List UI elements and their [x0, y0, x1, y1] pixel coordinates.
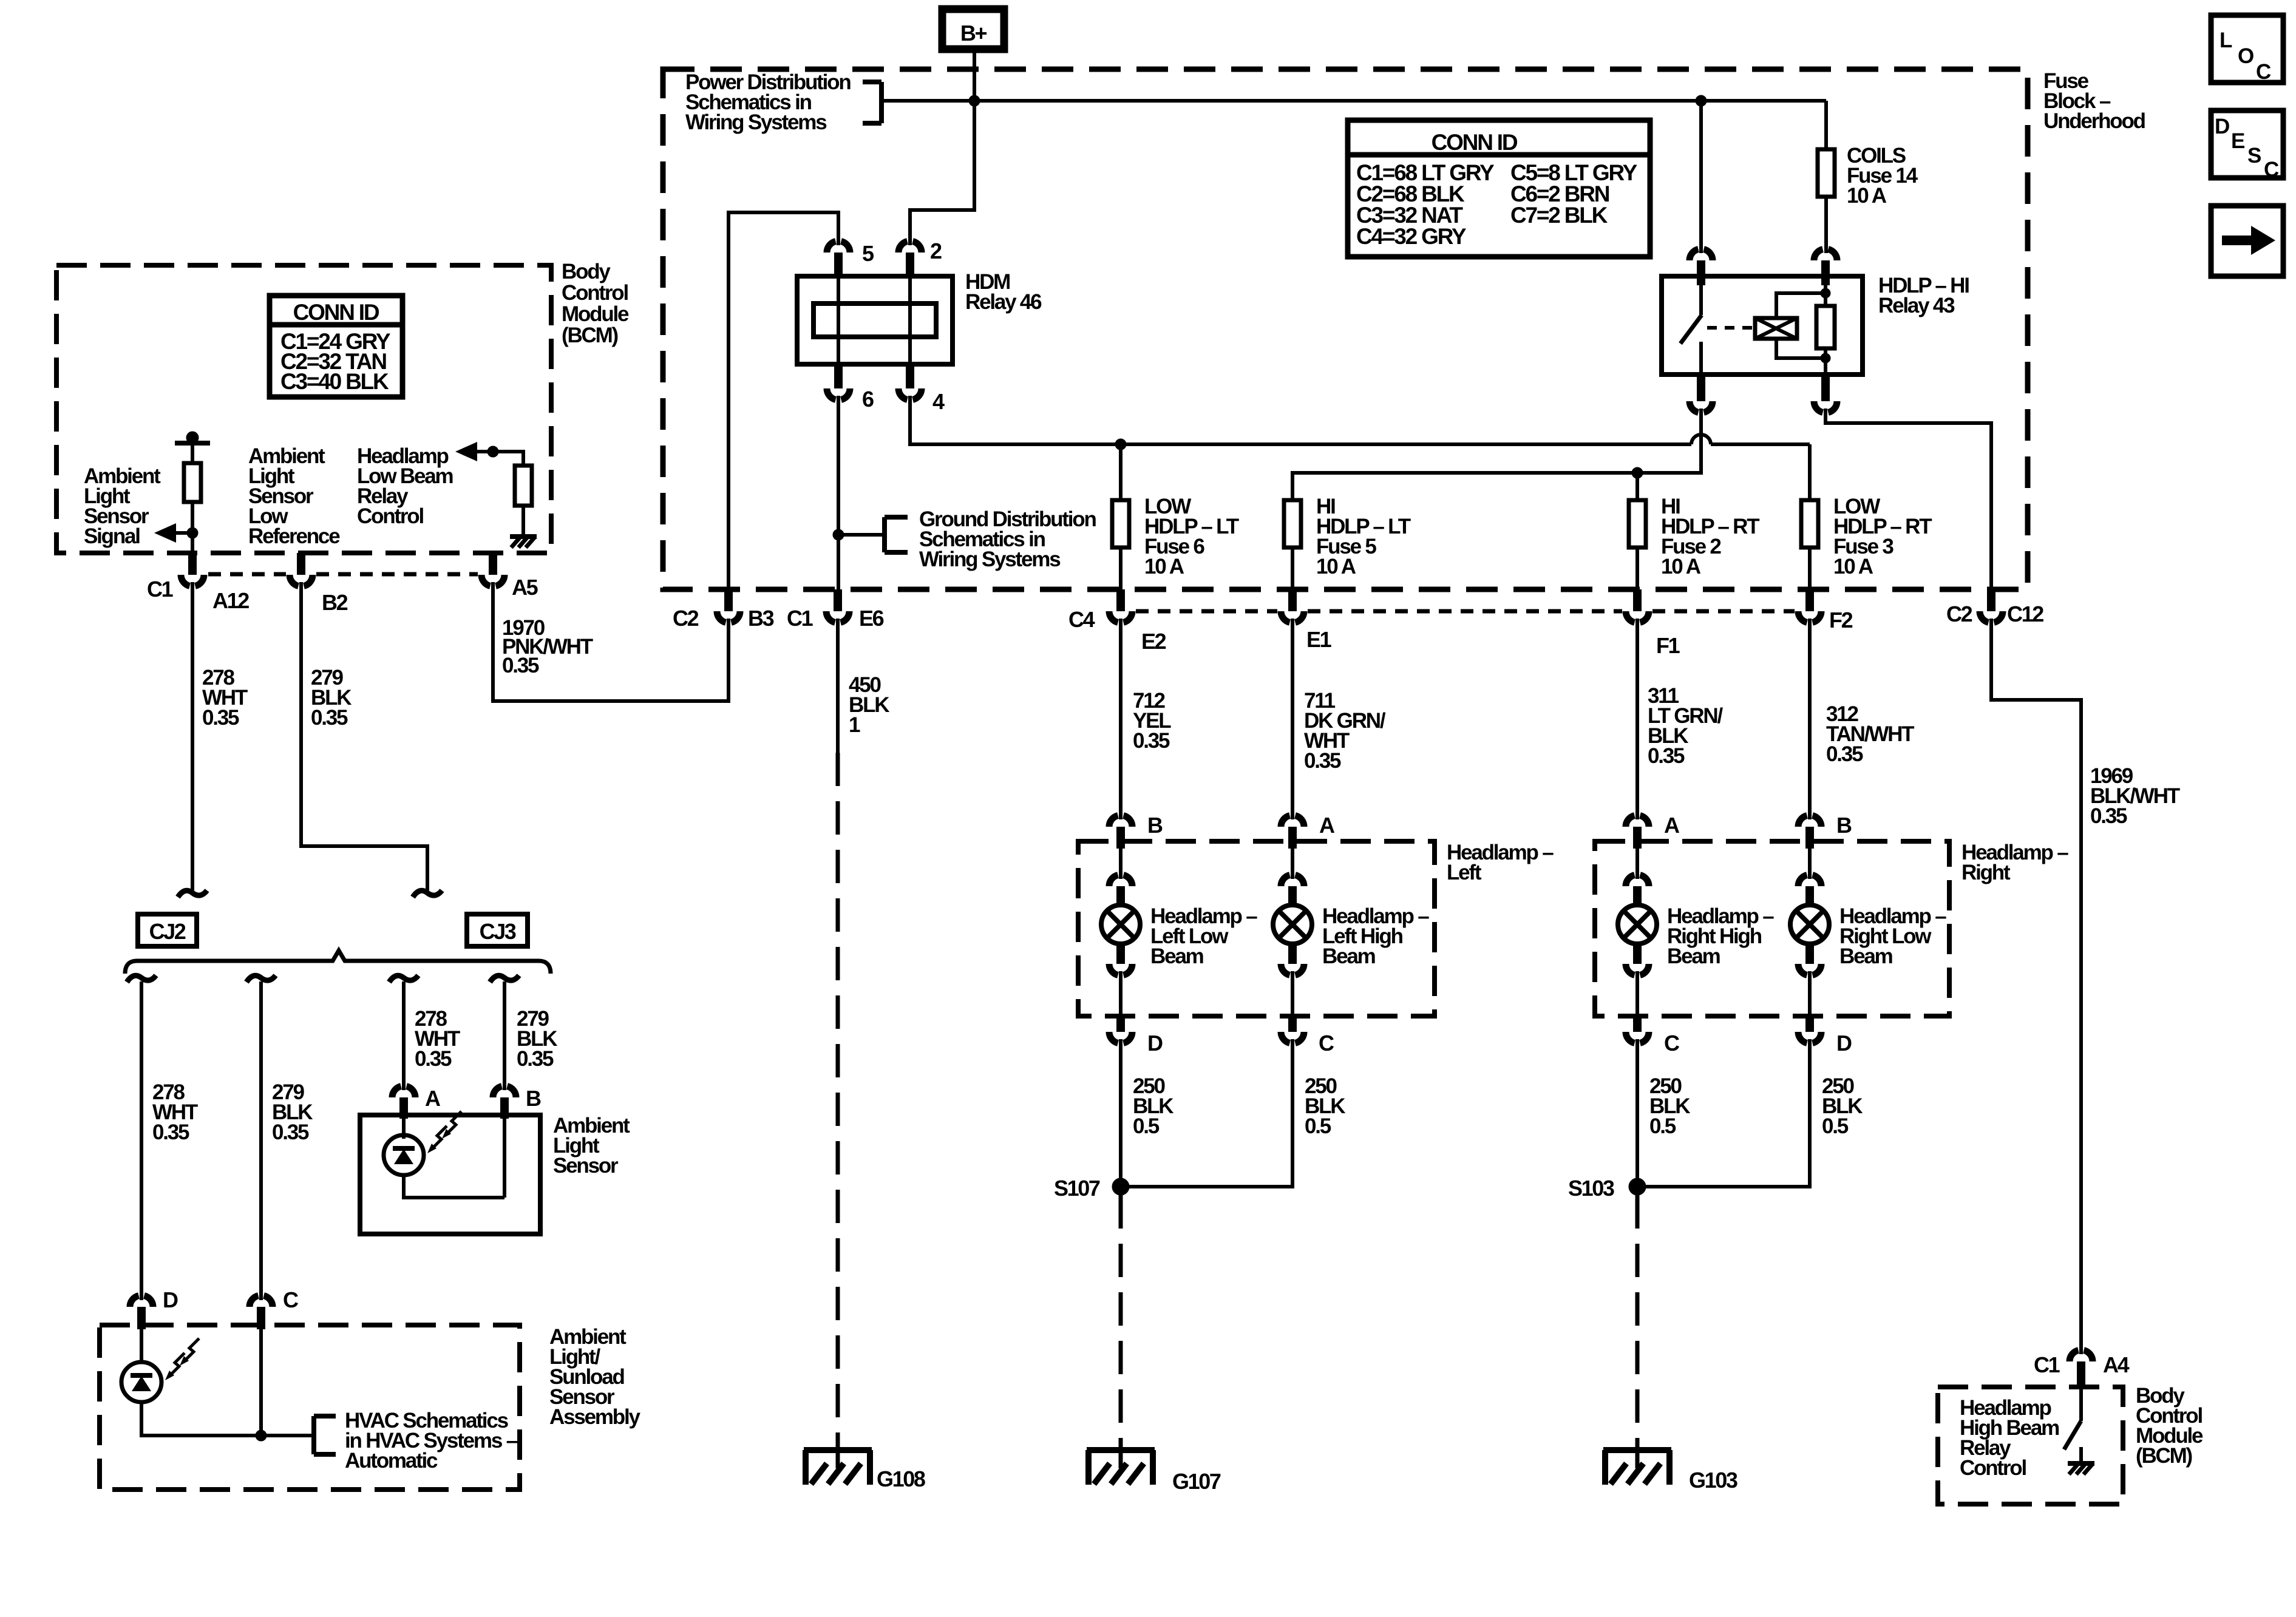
- connector B headlamp right: [1798, 816, 1821, 827]
- lamp headlamp right low beam: [1808, 849, 1812, 879]
- lamp headlamp right high beam: [1635, 849, 1639, 879]
- svg-text:6: 6: [862, 387, 874, 412]
- connector CJ2 box: [138, 914, 197, 946]
- BCM connector row dotted line: [208, 572, 286, 577]
- wire E6 to G108 (450 BLK): [836, 619, 840, 753]
- svg-text:Relay 43: Relay 43: [1878, 294, 1955, 317]
- svg-text:S: S: [2247, 144, 2261, 168]
- svg-text:10 A: 10 A: [1144, 555, 1184, 578]
- connector A headlamp right: [1626, 816, 1649, 827]
- connector D headlamp right: [1805, 1016, 1814, 1032]
- svg-text:Control: Control: [562, 281, 628, 305]
- connector relay 43 coil out (right bottom): [1821, 375, 1830, 401]
- svg-text:0.5: 0.5: [1133, 1114, 1160, 1138]
- svg-text:F2: F2: [1829, 608, 1853, 632]
- relay 43 switch: [1699, 285, 1703, 315]
- wire F1 to headlamp right high (311 LT GRN/BLK): [1635, 619, 1639, 819]
- svg-text:0.35: 0.35: [311, 706, 348, 730]
- svg-text:A5: A5: [512, 575, 538, 600]
- junction dot B+ bus: [969, 95, 980, 106]
- arrow legend box: [2211, 206, 2283, 276]
- wire bus to HDM pin 2: [910, 101, 974, 245]
- connector CJ3 box: [467, 914, 528, 946]
- junction dot HVAC tap: [256, 1430, 267, 1441]
- connector relay 43 pin 86 (left top): [1699, 101, 1703, 253]
- headlamp right box: [1595, 841, 1949, 1016]
- svg-text:0.35: 0.35: [1304, 749, 1341, 773]
- svg-text:C1: C1: [147, 577, 174, 602]
- svg-text:0.35: 0.35: [2090, 804, 2127, 828]
- bracket power distribution: [879, 82, 884, 123]
- svg-text:0.5: 0.5: [1822, 1114, 1849, 1138]
- svg-text:B+: B+: [960, 21, 987, 46]
- svg-text:CONN ID: CONN ID: [1432, 130, 1518, 155]
- svg-text:0.35: 0.35: [202, 706, 239, 730]
- wire F2 to headlamp right low (312 TAN/WHT): [1808, 619, 1812, 819]
- power symbol B+: [942, 9, 1004, 49]
- svg-text:CONN ID: CONN ID: [293, 300, 379, 325]
- wire CJ2 pin to C (279 BLK): [246, 975, 276, 982]
- svg-text:2: 2: [930, 239, 942, 263]
- svg-text:C2: C2: [1946, 602, 1972, 626]
- wire D to S107 (250 BLK): [1119, 1039, 1123, 1187]
- svg-text:Module: Module: [562, 302, 629, 326]
- connector relay 43 switch out (left bottom): [1697, 375, 1705, 401]
- svg-text:10 A: 10 A: [1661, 555, 1701, 578]
- junction dot relay control: [487, 446, 498, 457]
- photon arrows sunload sensor: [171, 1353, 185, 1375]
- svg-text:D: D: [2215, 115, 2229, 138]
- svg-text:CJ2: CJ2: [149, 919, 186, 944]
- svg-text:D: D: [1147, 1031, 1163, 1056]
- junction dot sensor signal: [187, 527, 198, 538]
- svg-text:C: C: [2256, 60, 2271, 84]
- junction dot fuse 2 tap: [1632, 467, 1643, 478]
- headlamp left box: [1078, 841, 1435, 1016]
- wire CJ2 pin to D (278 WHT): [127, 975, 156, 982]
- bracket HVAC schematics: [311, 1416, 316, 1454]
- connector relay 43 pin 85 (right top): [1814, 249, 1837, 260]
- wire C to S107 (250 BLK): [1121, 1039, 1292, 1187]
- BCM internal resistor (ambient light sensor signal): [186, 432, 199, 444]
- connector C2/C12: [1987, 589, 1995, 611]
- svg-text:Control: Control: [357, 504, 423, 528]
- ground G107: [1087, 1447, 1155, 1453]
- wire B+ bus: [881, 99, 1826, 103]
- junction dot fuse 6 tap: [1115, 439, 1126, 450]
- svg-text:Beam: Beam: [1839, 944, 1892, 968]
- svg-text:C1: C1: [787, 606, 813, 631]
- connector pin 5 of HDM relay: [827, 242, 850, 253]
- svg-text:G103: G103: [1689, 1468, 1737, 1493]
- splice S103: [1629, 1178, 1646, 1195]
- svg-text:0.5: 0.5: [1305, 1114, 1331, 1138]
- connector F2: [1805, 589, 1814, 611]
- svg-text:(BCM): (BCM): [562, 324, 618, 347]
- svg-text:L: L: [2220, 29, 2232, 52]
- svg-text:1: 1: [849, 713, 860, 737]
- wire B2 to CJ3 (279 BLK): [301, 582, 427, 890]
- svg-text:Control: Control: [1960, 1456, 2026, 1480]
- connector C1/A12: [188, 553, 197, 575]
- svg-text:C: C: [1664, 1031, 1680, 1056]
- sensor Ambient Light Sensor box: [360, 1115, 540, 1234]
- connector C2/B3: [724, 589, 733, 611]
- photon arrows ambient light sensor: [433, 1126, 447, 1148]
- wire HDM pin 6 to E6: [837, 396, 840, 591]
- module Body Control Module BCM box: [56, 265, 551, 553]
- chassis ground BCM A5 driver: [510, 534, 537, 539]
- svg-text:C7=2 BLK: C7=2 BLK: [1510, 203, 1608, 228]
- junction dot coil top: [1821, 288, 1830, 298]
- connector D ambient light/sunload assembly: [130, 1296, 153, 1307]
- wire CJ3 pin to B (279 BLK): [490, 975, 519, 982]
- svg-text:5: 5: [862, 241, 874, 266]
- wire E2 to headlamp left low (712 YEL): [1119, 619, 1123, 819]
- LOC legend box: [2211, 15, 2283, 83]
- arrow headlamp low beam relay control: [475, 450, 493, 453]
- svg-text:C1: C1: [2034, 1352, 2060, 1377]
- svg-text:Body: Body: [562, 260, 611, 283]
- svg-text:Relay 46: Relay 46: [965, 290, 1042, 314]
- svg-text:C: C: [1319, 1031, 1334, 1056]
- svg-text:10 A: 10 A: [1316, 555, 1356, 578]
- junction dot coil bottom: [1821, 353, 1830, 363]
- svg-text:E6: E6: [859, 606, 884, 631]
- lamp headlamp left high beam: [1291, 849, 1294, 879]
- svg-text:Underhood: Underhood: [2043, 109, 2145, 133]
- connector row dotted line E2-F2: [1136, 609, 1277, 614]
- svg-text:10 A: 10 A: [1847, 184, 1887, 208]
- svg-text:B2: B2: [322, 590, 348, 615]
- connector pin 2 of HDM relay: [898, 242, 922, 253]
- svg-text:Automatic: Automatic: [345, 1449, 438, 1473]
- connector B headlamp left: [1109, 816, 1132, 827]
- svg-text:Wiring Systems: Wiring Systems: [685, 110, 827, 134]
- svg-text:0.35: 0.35: [1648, 744, 1685, 768]
- connector C1/A4: [2070, 1351, 2093, 1361]
- connector C headlamp left: [1288, 1016, 1297, 1032]
- svg-text:A: A: [1319, 813, 1335, 838]
- svg-text:0.5: 0.5: [1649, 1114, 1676, 1138]
- wire relay 43 to C12: [1826, 408, 1991, 591]
- relay 43 coil: [1755, 318, 1797, 339]
- DESC legend box: [2211, 110, 2283, 178]
- wire B3 to HDM pin 5: [729, 212, 838, 591]
- fuse block box (Fuse Block - Underhood): [663, 69, 2028, 589]
- ground G103: [1603, 1447, 1671, 1453]
- photodiode sunload assembly: [140, 1329, 143, 1363]
- svg-text:B3: B3: [748, 606, 774, 631]
- svg-text:C: C: [2264, 158, 2279, 181]
- wire S103 to G103: [1635, 1195, 1640, 1450]
- table CONN ID BCM: [270, 296, 402, 397]
- relay 43 actuator dashed link: [1707, 326, 1752, 330]
- svg-text:A4: A4: [2103, 1352, 2130, 1377]
- fuse HI HDLP-RT Fuse 2: [1635, 473, 1639, 500]
- junction dot relay 43 feed: [1696, 95, 1707, 106]
- wire LOW bus from HDM pin 4: [910, 396, 1691, 444]
- brace splice pack: [125, 951, 551, 974]
- svg-text:(BCM): (BCM): [2136, 1444, 2192, 1468]
- fuse LOW HDLP-RT Fuse 3: [1808, 444, 1812, 500]
- connector C headlamp right: [1633, 1016, 1642, 1032]
- svg-text:F1: F1: [1656, 633, 1680, 658]
- connector C4/E2: [1116, 589, 1125, 611]
- splice S107: [1112, 1178, 1129, 1195]
- svg-text:O: O: [2238, 44, 2254, 68]
- svg-text:Beam: Beam: [1150, 944, 1203, 968]
- svg-text:0.35: 0.35: [272, 1120, 309, 1144]
- svg-text:Beam: Beam: [1322, 944, 1375, 968]
- wire D to S103 (250 BLK): [1637, 1039, 1810, 1187]
- fuse HI HDLP-LT Fuse 5: [1284, 500, 1301, 547]
- BCM internal resistor to ground (A5 driver): [493, 452, 523, 466]
- wire S107 to G107: [1119, 1195, 1123, 1450]
- svg-text:0.35: 0.35: [415, 1047, 452, 1071]
- connector pin 4 of HDM relay: [898, 388, 922, 399]
- table CONN ID fuse block: [1348, 120, 1650, 257]
- wire B3 to A5 (1970 PNK/WHT): [493, 582, 729, 701]
- svg-text:4: 4: [932, 389, 945, 414]
- svg-text:C: C: [283, 1287, 299, 1312]
- svg-text:C3=40 BLK: C3=40 BLK: [280, 369, 389, 394]
- svg-text:D: D: [163, 1287, 178, 1312]
- relay 43 resistor: [1824, 285, 1827, 306]
- junction dot ground distribution tap: [833, 529, 844, 540]
- wire E1 to headlamp left high (711 DK GRN/WHT): [1291, 619, 1294, 819]
- svg-text:CJ3: CJ3: [480, 919, 516, 944]
- svg-text:S107: S107: [1054, 1176, 1100, 1201]
- svg-text:C4: C4: [1068, 607, 1095, 632]
- connector C1/E6: [834, 589, 842, 611]
- svg-text:E1: E1: [1306, 627, 1332, 652]
- svg-text:0.35: 0.35: [517, 1047, 554, 1071]
- ground G108: [804, 1447, 872, 1453]
- fuse COILS Fuse 14: [1824, 101, 1828, 149]
- photodiode ambient light sensor: [402, 1119, 406, 1139]
- svg-text:B: B: [526, 1086, 541, 1111]
- assembly Ambient Light/Sunload Sensor Assembly box: [100, 1325, 520, 1490]
- connector D headlamp left: [1116, 1016, 1125, 1032]
- svg-text:G108: G108: [877, 1466, 925, 1491]
- chassis ground BCM A4 driver: [2079, 1447, 2083, 1463]
- svg-text:0.35: 0.35: [1826, 742, 1863, 766]
- svg-text:A12: A12: [212, 588, 249, 613]
- svg-text:0.35: 0.35: [1133, 729, 1170, 753]
- module BCM high beam relay control box: [1938, 1387, 2123, 1504]
- svg-text:E2: E2: [1141, 629, 1166, 654]
- connector pin 6 of HDM relay: [827, 388, 850, 399]
- svg-text:0.35: 0.35: [152, 1120, 189, 1144]
- connector E1: [1288, 589, 1297, 611]
- wire C12 to BCM A4 (1969 BLK/WHT): [1991, 619, 2081, 1354]
- connector A ambient light sensor: [392, 1086, 415, 1097]
- svg-text:B: B: [1836, 813, 1852, 838]
- svg-text:Left: Left: [1447, 861, 1482, 884]
- connector B2: [297, 553, 305, 575]
- wire B+ to bus: [973, 53, 976, 101]
- svg-text:A: A: [1664, 813, 1680, 838]
- svg-text:B: B: [1147, 813, 1163, 838]
- relay HDM Relay 46: [797, 276, 953, 364]
- wire HI bus: [1292, 408, 1701, 500]
- BCM high beam switch: [2079, 1387, 2083, 1421]
- relay HDLP-HI Relay 43: [1662, 276, 1863, 375]
- bracket ground distribution: [838, 533, 885, 537]
- svg-text:0.35: 0.35: [502, 654, 539, 677]
- wire A12 to CJ2 (278 WHT): [191, 582, 194, 890]
- svg-text:Assembly: Assembly: [549, 1405, 640, 1429]
- svg-text:Signal: Signal: [84, 524, 140, 548]
- svg-text:G107: G107: [1172, 1469, 1221, 1494]
- lamp headlamp left low beam: [1119, 849, 1123, 879]
- svg-text:S103: S103: [1568, 1176, 1614, 1201]
- svg-text:Beam: Beam: [1667, 944, 1720, 968]
- fuse LOW HDLP-LT Fuse 6: [1119, 444, 1123, 500]
- connector A headlamp left: [1281, 816, 1304, 827]
- svg-text:10 A: 10 A: [1833, 555, 1873, 578]
- wire C to S103 (250 BLK): [1635, 1039, 1639, 1187]
- svg-text:E: E: [2231, 129, 2244, 153]
- svg-text:Reference: Reference: [248, 524, 340, 548]
- svg-text:Wiring Systems: Wiring Systems: [919, 547, 1061, 571]
- svg-text:Sensor: Sensor: [553, 1154, 619, 1178]
- svg-text:A: A: [425, 1086, 441, 1111]
- svg-text:C12: C12: [2007, 602, 2043, 626]
- arrow ambient light sensor signal: [174, 531, 192, 535]
- svg-text:C4=32 GRY: C4=32 GRY: [1356, 224, 1467, 249]
- wire CJ3 pin to A (278 WHT): [389, 975, 418, 982]
- connector A5: [489, 553, 497, 575]
- svg-text:C2: C2: [673, 606, 699, 631]
- svg-text:D: D: [1836, 1031, 1852, 1056]
- connector B ambient light sensor: [493, 1086, 516, 1097]
- wire hop of LOW bus over relay 43 wire: [1691, 435, 1711, 444]
- svg-text:Right: Right: [1961, 861, 2011, 884]
- connector C ambient light/sunload assembly: [250, 1296, 273, 1307]
- connector F1: [1633, 589, 1642, 611]
